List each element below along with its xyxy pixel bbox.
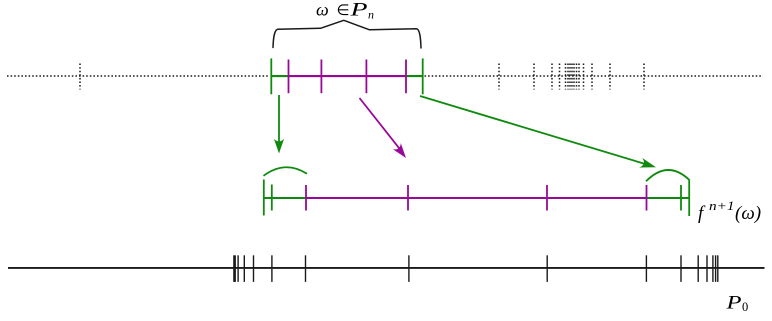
P_0 number line (bottom) <box>8 267 765 269</box>
brace over omega <box>273 20 421 48</box>
svg-text:fn+1(ω): fn+1(ω) <box>698 198 761 224</box>
svg-text:P0: P0 <box>725 293 748 315</box>
green endpoint tick right (top) <box>422 58 424 94</box>
purple ticks (top) <box>289 60 407 94</box>
middle row green tall tick left <box>263 180 265 216</box>
green down arrow <box>274 95 284 154</box>
middle row green left segment <box>264 197 306 199</box>
dotted ticks right cluster <box>499 64 644 90</box>
green arc left (middle row) <box>264 167 308 176</box>
interval omega purple middle segment (top) <box>289 75 407 77</box>
middle row green short tick right <box>680 185 682 211</box>
bottom ticks <box>234 255 718 282</box>
green arc right (middle row) <box>646 170 690 181</box>
dotted number line right part (top) <box>425 75 764 77</box>
interval omega green left segment (top) <box>271 75 288 77</box>
green endpoint tick left (top) <box>270 58 272 94</box>
interval omega green right segment (top) <box>406 75 423 77</box>
dotted tick x=80 <box>79 64 81 90</box>
middle row purple segment <box>306 197 647 199</box>
green long diagonal arrow <box>420 96 656 168</box>
dotted number line left part (top) <box>7 75 270 77</box>
svg-text:ω∈Pn: ω∈Pn <box>316 0 374 22</box>
middle row purple ticks <box>306 185 647 211</box>
middle row green short tick left <box>271 185 273 211</box>
middle row green tall tick right <box>688 181 690 217</box>
middle row green right segment <box>647 197 690 199</box>
purple diagonal arrow <box>360 98 407 158</box>
